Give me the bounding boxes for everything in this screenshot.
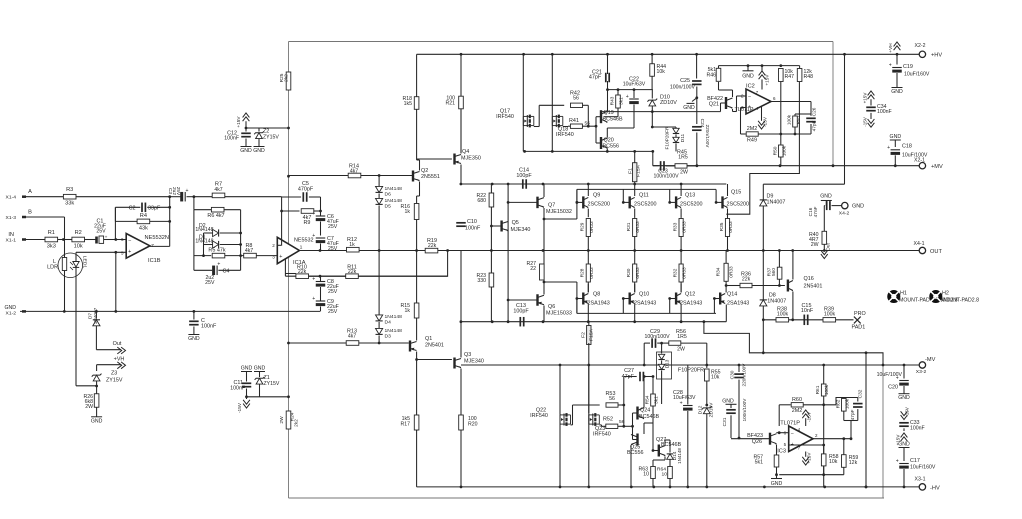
capacitor C18 10uF 100V <box>887 134 928 166</box>
svg-text:680: 680 <box>477 198 486 204</box>
resistor R3 <box>63 187 171 207</box>
svg-text:R33: R33 <box>672 222 678 231</box>
svg-text:X1-2: X1-2 <box>6 311 17 317</box>
resistor R4 43k <box>115 207 171 231</box>
svg-text:C2: C2 <box>129 205 136 211</box>
svg-text:22: 22 <box>530 266 536 272</box>
resistor R10 22k <box>285 264 308 278</box>
svg-text:1k: 1k <box>405 209 411 215</box>
transistor Q2 2N5551 <box>413 109 440 203</box>
svg-text:C25: C25 <box>680 78 690 84</box>
resistor R63 10 <box>638 462 655 487</box>
svg-text:Q3: Q3 <box>464 352 471 358</box>
svg-text:A: A <box>28 189 32 195</box>
diode column D4 D3 <box>376 251 403 345</box>
svg-text:GND: GND <box>771 481 783 487</box>
resistor R11 22k <box>309 264 448 278</box>
svg-text:2W: 2W <box>680 170 688 176</box>
wire rail B top supply <box>417 53 920 56</box>
svg-text:+: + <box>217 262 220 268</box>
svg-text:X4-2: X4-2 <box>839 211 850 217</box>
wire box right edge <box>882 365 884 498</box>
svg-text:F15A: F15A <box>636 164 642 177</box>
svg-text:GND: GND <box>722 399 734 405</box>
mosfet Q18 IRF540 <box>552 54 573 151</box>
opamp IC2 TL071P <box>735 84 776 115</box>
terminal X4-1 OUT <box>914 241 943 255</box>
svg-text:2k2: 2k2 <box>294 419 300 427</box>
wire bias rail upper <box>653 164 866 167</box>
resistor R58 10k <box>821 445 838 487</box>
transistor Q3 MJE340 <box>417 251 484 416</box>
wire -MV rail <box>461 364 919 367</box>
svg-text:R60: R60 <box>792 397 802 403</box>
resistor R59 12k <box>824 437 859 474</box>
svg-text:Q16: Q16 <box>804 276 814 282</box>
terminal X1-1 IN <box>6 232 45 243</box>
svg-text:10k: 10k <box>711 375 720 381</box>
resistor R30 0R33 <box>626 251 641 293</box>
svg-text:100pF: 100pF <box>513 309 529 315</box>
svg-text:1R5: 1R5 <box>678 155 688 161</box>
svg-text:+: + <box>896 459 899 465</box>
svg-text:2SC5200: 2SC5200 <box>727 202 750 208</box>
wire npn base bridge <box>576 189 717 203</box>
svg-text:0R33: 0R33 <box>635 221 641 233</box>
wire +MV rail <box>866 164 919 167</box>
svg-text:R31: R31 <box>626 222 632 231</box>
wire -HV step drop <box>865 351 868 488</box>
svg-text:Q12: Q12 <box>685 292 695 298</box>
svg-text:−: − <box>128 239 131 245</box>
svg-text:10k: 10k <box>657 69 666 75</box>
svg-text:100nF: 100nF <box>465 226 481 232</box>
svg-text:IC1B: IC1B <box>148 258 161 264</box>
svg-text:R46: R46 <box>706 73 716 79</box>
capacitor C 100nF <box>188 311 217 342</box>
diode D2 1N4148 <box>195 223 242 245</box>
svg-text:25V: 25V <box>328 246 338 252</box>
svg-text:100n/100V: 100n/100V <box>644 334 670 340</box>
capacitor C28 10uF 63V <box>673 365 696 487</box>
svg-text:1: 1 <box>300 245 303 251</box>
svg-text:1N4148: 1N4148 <box>385 328 403 334</box>
svg-text:R21: R21 <box>445 101 455 107</box>
diode D11 F10P20FR <box>651 112 686 152</box>
svg-text:D6: D6 <box>385 192 392 198</box>
svg-text:+VH: +VH <box>888 43 894 53</box>
svg-text:Q4: Q4 <box>462 149 469 155</box>
diode D7 1N4007 <box>88 307 101 349</box>
svg-text:X1-3: X1-3 <box>6 215 17 221</box>
svg-text:X4-1: X4-1 <box>914 241 925 247</box>
power -15V IC2 <box>758 107 768 130</box>
terminal X1-3 B <box>6 210 65 240</box>
svg-text:MOUNT-PAD2.8: MOUNT-PAD2.8 <box>941 298 979 304</box>
svg-text:Q15: Q15 <box>731 190 741 196</box>
resistor R57 5k1 <box>753 455 782 487</box>
transistor Q7 MJE15032 <box>507 184 577 251</box>
transistor Q1 2N5401 <box>410 336 444 431</box>
resistor R39 100k <box>823 307 836 323</box>
capacitor C26 47pF <box>806 107 817 134</box>
svg-text:1N4148: 1N4148 <box>195 227 213 233</box>
svg-text:R6 4k7: R6 4k7 <box>207 213 224 219</box>
capacitor C7 47uF 25V <box>312 233 339 252</box>
resistor R53 56 <box>606 391 626 426</box>
svg-text:C4: C4 <box>223 268 230 274</box>
svg-text:+: + <box>680 401 683 407</box>
resistor R7 4k7 <box>194 182 282 198</box>
power +15V IC2 <box>759 64 771 89</box>
svg-text:ZD10V: ZD10V <box>709 402 715 418</box>
svg-text:Q7: Q7 <box>548 203 555 209</box>
svg-text:GND: GND <box>898 442 910 448</box>
svg-text:470pF: 470pF <box>298 187 314 193</box>
svg-text:MJE340: MJE340 <box>464 359 484 365</box>
svg-text:47pF: 47pF <box>812 120 818 131</box>
transistor Q27 BC546B <box>652 437 682 462</box>
svg-text:100k: 100k <box>777 312 789 318</box>
svg-text:D3: D3 <box>385 334 392 340</box>
svg-text:D7: D7 <box>88 313 94 319</box>
svg-text:2SC5200: 2SC5200 <box>634 202 657 208</box>
capacitor C30 220n 100V <box>730 363 748 440</box>
svg-text:C27: C27 <box>624 368 634 374</box>
svg-text:BC546B: BC546B <box>639 414 660 420</box>
svg-text:R61: R61 <box>815 385 821 394</box>
capacitor C32 47pF <box>850 389 864 420</box>
svg-text:+VH: +VH <box>114 357 125 363</box>
wire rail A +VH top <box>289 42 835 168</box>
svg-text:IN: IN <box>8 232 14 238</box>
ground IC2 <box>742 64 754 79</box>
resistor R26 6k8 2W <box>83 386 102 424</box>
svg-text:B: B <box>28 210 32 216</box>
svg-text:GND: GND <box>852 204 864 210</box>
svg-text:47pF: 47pF <box>589 75 602 81</box>
svg-text:1N4148: 1N4148 <box>385 186 403 192</box>
transistor Q10 2SA1943 <box>622 284 656 322</box>
transistor Q5 MJE340 <box>490 184 530 322</box>
svg-text:D5: D5 <box>385 204 392 210</box>
wire -MV step feed <box>704 322 883 365</box>
resistor R55 10k <box>705 365 721 406</box>
svg-text:R47: R47 <box>785 74 795 80</box>
resistor R2 <box>63 230 97 249</box>
svg-text:R54: R54 <box>645 395 651 404</box>
transistor Q24 BC546B <box>633 377 660 440</box>
resistor R28 0R33 <box>580 251 595 293</box>
svg-text:10: 10 <box>643 472 649 478</box>
svg-text:+HV: +HV <box>931 53 942 59</box>
svg-text:BC546B: BC546B <box>603 117 624 123</box>
resistor R64 10 <box>657 462 672 487</box>
resistor R36 22k <box>726 272 785 288</box>
svg-text:1N4007: 1N4007 <box>767 200 786 206</box>
terminal X1-4 A <box>6 189 64 201</box>
svg-text:NE5532N: NE5532N <box>145 235 169 241</box>
resistor R61 100k <box>815 365 830 446</box>
resistor R31 0R33 <box>626 217 641 250</box>
svg-text:2N5401: 2N5401 <box>425 343 444 349</box>
resistor R44 10k <box>650 54 666 89</box>
svg-text:56: 56 <box>609 396 615 402</box>
capacitor C6 47uF 25V <box>312 211 339 236</box>
wire left dropper rail <box>287 42 290 499</box>
svg-text:100n/100V: 100n/100V <box>670 85 696 91</box>
svg-text:+15V: +15V <box>236 116 242 128</box>
capacitor C25 100n 100V <box>670 54 702 99</box>
svg-text:C10: C10 <box>467 219 477 225</box>
ground flag IC2 area <box>683 98 697 111</box>
svg-text:TL071P: TL071P <box>780 421 800 427</box>
svg-text:ZD10V: ZD10V <box>660 100 677 106</box>
capacitor C4 2u2 25V <box>194 262 241 286</box>
resistor R34 0R33 <box>716 251 735 293</box>
svg-text:IRF540: IRF540 <box>530 413 548 419</box>
svg-text:56: 56 <box>619 419 625 425</box>
resistor R5 47k <box>194 210 244 271</box>
node PRO PAD1 <box>852 311 866 331</box>
terminal X3-1 -HV <box>915 477 940 492</box>
resistor R22 680 <box>476 184 493 251</box>
svg-text:-MV: -MV <box>925 357 936 363</box>
transistor Q21 BF422 <box>707 82 746 112</box>
resistor R62 100k <box>824 398 858 441</box>
svg-text:D4: D4 <box>385 320 392 326</box>
svg-text:R20: R20 <box>468 422 478 428</box>
svg-text:GND: GND <box>253 148 265 154</box>
resistor R16 1k <box>400 204 418 251</box>
transistor Q26 BF423 <box>731 431 781 455</box>
svg-text:ZY15V: ZY15V <box>264 381 280 387</box>
svg-text:GND: GND <box>188 336 200 342</box>
svg-text:25V: 25V <box>328 224 338 230</box>
svg-text:ZY15V: ZY15V <box>106 378 123 384</box>
svg-text:Q14: Q14 <box>727 292 737 298</box>
svg-text:100k: 100k <box>787 114 793 125</box>
transistor Q8 2SA1943 <box>576 284 610 322</box>
svg-text:+: + <box>186 188 189 194</box>
mount pad H1 <box>889 291 958 304</box>
svg-text:R49: R49 <box>747 138 757 144</box>
svg-text:H2: H2 <box>942 291 949 297</box>
svg-text:25V: 25V <box>328 289 338 295</box>
svg-text:C31: C31 <box>722 417 728 426</box>
svg-text:43k: 43k <box>139 226 148 232</box>
wire box bottom <box>289 497 885 499</box>
svg-text:+: + <box>312 277 315 283</box>
capacitor C3 2u2 25V <box>167 187 195 202</box>
svg-text:GND: GND <box>4 305 16 311</box>
transistor Q15 2SC5200 <box>715 184 749 217</box>
svg-text:Q24: Q24 <box>640 408 650 414</box>
wire R38 protection line <box>763 318 853 321</box>
svg-text:1N4007: 1N4007 <box>93 307 99 324</box>
capacitor C10 100nF <box>456 219 481 232</box>
svg-text:−: − <box>791 431 794 437</box>
svg-text:F1: F1 <box>628 168 634 174</box>
resistor R40 4R7 2W <box>809 231 832 258</box>
svg-text:C19: C19 <box>903 64 913 70</box>
resistor R15 1k <box>400 251 418 339</box>
capacitor C21 47pF <box>589 54 609 91</box>
svg-text:ZY15V: ZY15V <box>263 135 279 141</box>
svg-text:R48: R48 <box>804 74 814 80</box>
svg-text:33k: 33k <box>65 201 74 207</box>
transistor Q14 2SA1943 <box>713 292 749 322</box>
svg-text:X1-1: X1-1 <box>6 237 17 243</box>
svg-text:+: + <box>312 211 315 217</box>
svg-text:Q1: Q1 <box>425 336 432 342</box>
svg-text:+15V: +15V <box>807 452 813 464</box>
svg-text:+15V: +15V <box>765 74 771 86</box>
svg-text:R41: R41 <box>569 118 579 124</box>
resistor R38 100k <box>776 307 789 323</box>
svg-text:10uF/63V: 10uF/63V <box>673 395 696 401</box>
svg-text:Q26: Q26 <box>752 439 762 445</box>
svg-text:47nF: 47nF <box>813 206 819 217</box>
resistor R14 4k7 <box>289 164 414 178</box>
svg-text:2SA1943: 2SA1943 <box>680 301 702 307</box>
resistor R56 1R5 2W <box>669 329 707 365</box>
mosfet Q22 IRF540 <box>530 365 600 487</box>
svg-text:2SA1943: 2SA1943 <box>634 301 656 307</box>
capacitor C27 47pF <box>622 368 646 405</box>
svg-text:R4: R4 <box>140 213 147 219</box>
svg-text:GND: GND <box>241 366 253 372</box>
svg-text:GND: GND <box>891 89 903 95</box>
capacitor C33 100nF <box>896 407 925 445</box>
resistor R45 1R5 2W <box>675 150 697 176</box>
zener D12 ZD10V <box>698 402 715 487</box>
svg-text:0R33: 0R33 <box>729 266 735 278</box>
wire LED return <box>76 385 97 387</box>
wire upper cluster rail <box>523 150 654 166</box>
transistor Q6 MJE15033 <box>507 251 577 322</box>
svg-text:OUT: OUT <box>930 249 942 255</box>
fuse F2 F15A <box>581 322 595 487</box>
power -15V C11 Z1 <box>230 366 288 414</box>
power +15V IC3 <box>802 452 812 466</box>
wire output rail <box>299 249 919 252</box>
resistor R8 4k7 <box>244 243 278 258</box>
resistor R13 4k7 <box>289 329 409 346</box>
svg-text:330: 330 <box>477 278 486 284</box>
svg-text:0R33: 0R33 <box>728 221 734 233</box>
wire IC3 out <box>779 439 851 476</box>
svg-text:100nF: 100nF <box>224 136 239 142</box>
svg-text:-15V: -15V <box>237 402 243 413</box>
svg-text:10k: 10k <box>74 243 83 249</box>
svg-text:2W: 2W <box>677 347 685 353</box>
power +VH flag <box>888 42 900 53</box>
svg-text:Q6: Q6 <box>548 304 555 310</box>
transistor Q19 BC546B <box>596 90 623 143</box>
svg-text:2N5551: 2N5551 <box>421 174 440 180</box>
svg-text:Out: Out <box>113 341 122 347</box>
wire gnd rail left <box>20 310 320 313</box>
svg-text:MJE350: MJE350 <box>461 156 481 162</box>
resistor R52 56 <box>603 417 634 429</box>
transistor Q11 2SC5200 <box>622 184 657 217</box>
svg-text:X3-1: X3-1 <box>915 477 926 483</box>
svg-text:Q8: Q8 <box>593 292 600 298</box>
optocoupler L LDR LED1 <box>47 240 87 386</box>
svg-text:C26: C26 <box>812 107 818 116</box>
svg-text:C20: C20 <box>888 385 898 391</box>
zener D10 ZD10V <box>647 90 677 112</box>
svg-text:22k: 22k <box>298 269 307 275</box>
wire bias mid rail <box>601 88 721 113</box>
svg-text:R1: R1 <box>48 230 55 236</box>
svg-text:2SC5200: 2SC5200 <box>680 202 703 208</box>
svg-text:10uF/160V: 10uF/160V <box>904 72 930 78</box>
svg-text:3k1: 3k1 <box>654 396 660 404</box>
wire +HV feed column <box>763 54 844 184</box>
resistor R50 100k <box>772 134 787 166</box>
svg-text:100nF: 100nF <box>230 386 245 392</box>
svg-text:4k7: 4k7 <box>350 168 358 174</box>
wire top driver rail <box>460 183 727 186</box>
svg-text:F10P20FR: F10P20FR <box>665 126 671 150</box>
resistor R47 10k <box>779 69 795 136</box>
svg-text:MJE340: MJE340 <box>511 227 531 233</box>
capacitor C34 100nF <box>863 91 892 127</box>
terminal X2-2 +HV <box>915 43 943 59</box>
svg-text:Out: Out <box>826 242 832 250</box>
svg-text:100k: 100k <box>824 384 830 395</box>
terminal X3-2 -MV <box>916 357 936 375</box>
svg-text:C3: C3 <box>167 188 173 194</box>
svg-text:47pF: 47pF <box>850 409 856 420</box>
svg-text:GND: GND <box>683 105 695 111</box>
svg-text:+: + <box>626 94 629 100</box>
diode column D6 D5 <box>376 176 403 251</box>
svg-text:Q5: Q5 <box>512 220 519 226</box>
svg-text:R30: R30 <box>626 268 632 277</box>
resistor R20 100 <box>459 415 478 487</box>
svg-text:-15V: -15V <box>905 407 910 417</box>
svg-text:Q9: Q9 <box>593 193 600 199</box>
resistor R6 4k7 <box>194 197 241 271</box>
power +15V C12 Z2 <box>224 113 288 154</box>
svg-text:C32: C32 <box>858 389 864 398</box>
svg-text:2SA1943: 2SA1943 <box>588 301 610 307</box>
svg-text:100nF: 100nF <box>910 426 925 432</box>
power -15V IC3 <box>802 410 812 426</box>
svg-text:H1: H1 <box>900 291 907 297</box>
wire R48 sense path <box>726 82 799 214</box>
wire feedback tap <box>284 251 448 278</box>
resistor R17 1k5 <box>400 415 418 487</box>
svg-text:0R33: 0R33 <box>635 267 641 279</box>
svg-text:1N4007: 1N4007 <box>767 299 786 305</box>
resistor R51 100k <box>787 114 812 134</box>
svg-text:100pF: 100pF <box>516 173 532 179</box>
svg-text:2SC5200: 2SC5200 <box>588 202 611 208</box>
svg-text:+: + <box>128 249 131 255</box>
svg-text:X3-2: X3-2 <box>916 369 927 375</box>
diode D9 1N4007 <box>760 194 786 206</box>
svg-text:X2-2: X2-2 <box>915 43 926 49</box>
resistor R41 56 <box>568 118 597 128</box>
svg-text:22k: 22k <box>428 243 437 249</box>
svg-text:LED1: LED1 <box>82 256 88 269</box>
diode D8 1N4007 <box>760 293 787 306</box>
mosfet Q17 IRF540 <box>496 54 564 151</box>
